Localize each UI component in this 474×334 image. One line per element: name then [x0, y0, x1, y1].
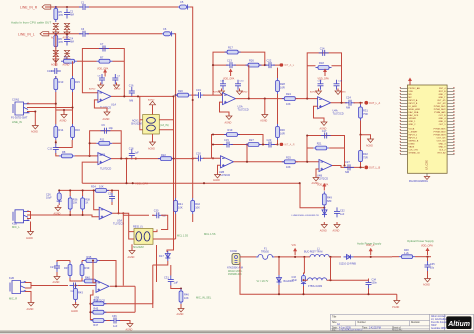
node — [123, 95, 125, 97]
wire — [56, 92, 73, 121]
wire — [31, 285, 68, 287]
svg-text:RES1 (!): RES1 (!) — [133, 225, 143, 228]
svg-text:C9: C9 — [101, 123, 105, 127]
diode pair D3 — [53, 50, 59, 56]
IC U6 DIX4192 body — [408, 85, 448, 173]
power VDD_OPA (U2) — [223, 69, 235, 81]
inductor L2 — [308, 278, 327, 288]
svg-text:PAL/DIX4192IPAG: PAL/DIX4192IPAG — [409, 180, 428, 183]
resistor R35 — [84, 255, 100, 263]
resistor R39 — [80, 262, 90, 278]
wire — [70, 190, 82, 215]
connector MIC2 jack — [9, 276, 27, 301]
svg-text:TL072CD: TL072CD — [333, 112, 344, 116]
svg-text:GND_7: GND_7 — [439, 94, 447, 96]
op-amp U1A — [98, 90, 116, 109]
resistor R41 (line bus load) — [174, 198, 184, 214]
svg-text:DAC_SCK: DAC_SCK — [409, 114, 419, 117]
svg-text:GND_9: GND_9 — [439, 147, 447, 149]
wire — [192, 158, 194, 222]
ground AGND (C27) — [53, 274, 61, 284]
wire — [93, 261, 96, 283]
ground AGND (U2A) — [225, 114, 233, 125]
svg-text:75R: 75R — [363, 112, 368, 116]
node — [89, 311, 91, 313]
wire — [360, 135, 362, 168]
svg-text:Australia 2086: Australia 2086 — [431, 327, 446, 330]
svg-text:PYNM_4A/1: PYNM_4A/1 — [434, 111, 446, 114]
wire — [72, 61, 74, 76]
svg-text:GND_T: GND_T — [438, 97, 446, 99]
node — [55, 60, 57, 62]
svg-text:Title: Title — [332, 316, 337, 319]
power VDD_OPTO — [421, 245, 433, 256]
wire U2A feedback loop — [213, 52, 265, 95]
node — [248, 98, 250, 100]
resistor R31 — [359, 105, 369, 121]
resistor R7 — [97, 56, 113, 64]
capacitor C19 (series) — [195, 88, 205, 98]
ground AGND (U4B) — [312, 175, 320, 185]
svg-text:R35: R35 — [87, 255, 92, 259]
ground AGND (C10) — [237, 89, 248, 95]
svg-text:10u: 10u — [430, 266, 435, 269]
node — [370, 256, 372, 258]
capacitor C3b (series) — [79, 28, 89, 37]
node — [262, 143, 264, 145]
svg-text:Altium Limited: Altium Limited — [431, 315, 446, 318]
wire — [128, 95, 174, 97]
svg-text:VDD_OPA: VDD_OPA — [135, 181, 148, 185]
svg-text:TL072CD: TL072CD — [113, 222, 124, 226]
wire — [78, 285, 96, 287]
svg-text:R47: R47 — [93, 323, 98, 327]
svg-text:47K: 47K — [59, 13, 64, 17]
svg-text:CLK_2: CLK_2 — [439, 150, 446, 152]
wire U4B feedback loop — [307, 136, 345, 166]
resistor R38 — [81, 196, 91, 212]
IC U6 pin numbers right — [453, 87, 455, 156]
port LINE_IN_R — [20, 5, 51, 10]
node — [66, 6, 68, 8]
wire — [304, 279, 367, 281]
svg-text:R22: R22 — [161, 153, 166, 157]
svg-text:Time:: Time: — [362, 327, 368, 329]
node — [172, 95, 174, 97]
capacitor C20 (series) — [194, 151, 204, 161]
svg-text:U1A: U1A — [111, 103, 116, 107]
svg-text:INPUT_B: INPUT_B — [409, 103, 418, 105]
wire plus input — [314, 106, 325, 119]
svg-text:C15: C15 — [224, 138, 229, 142]
svg-text:VDD: VDD — [409, 91, 414, 93]
op-amp U4B — [317, 160, 332, 181]
node — [55, 141, 57, 143]
resistor R47 — [322, 191, 332, 207]
port OUTPUT_R — [364, 166, 380, 170]
svg-text:AGND: AGND — [63, 64, 70, 67]
port OUTPUT_L — [364, 101, 380, 105]
wire — [25, 292, 31, 301]
wire — [58, 190, 60, 205]
resistor R42 (line bus load) — [191, 198, 201, 214]
wire — [264, 99, 266, 112]
capacitor C17 — [321, 129, 331, 139]
resistor R11 — [96, 138, 112, 146]
svg-text:R21: R21 — [317, 142, 322, 146]
node — [117, 212, 119, 214]
svg-text:Audio Power Supply: Audio Power Supply — [357, 241, 382, 245]
resistor R44 — [90, 298, 106, 306]
resistor R16 — [71, 124, 81, 140]
svg-text:C20: C20 — [196, 151, 201, 155]
node — [69, 214, 71, 216]
diode pair D1 — [53, 23, 59, 29]
svg-text:AGND: AGND — [27, 308, 34, 311]
wire — [277, 68, 279, 124]
wire — [90, 142, 122, 144]
resistor R18 — [316, 61, 332, 69]
svg-text:D17: D17 — [159, 254, 164, 258]
wire — [70, 261, 82, 282]
wire — [27, 103, 56, 105]
diode pair D2 — [64, 23, 70, 29]
svg-text:680: 680 — [327, 199, 332, 203]
resistor R46 — [179, 289, 189, 305]
svg-text:CON2: CON2 — [230, 250, 238, 253]
svg-text:SN-202M: SN-202M — [133, 246, 144, 249]
svg-text:C27: C27 — [50, 265, 55, 269]
svg-text:LINE_IN_L: LINE_IN_L — [18, 32, 35, 36]
capacitor C11b (decoupling) — [334, 80, 343, 90]
node — [55, 33, 57, 35]
svg-text:OUT_L_B: OUT_L_B — [369, 167, 380, 170]
svg-text:PYNM_GE/1: PYNM_GE/1 — [434, 129, 447, 131]
power VDD_OPA (U4) — [318, 69, 330, 81]
node — [125, 182, 127, 184]
wire — [77, 60, 82, 62]
svg-text:OUT_B: OUT_B — [439, 115, 447, 117]
wire — [152, 215, 168, 229]
capacitor C4 — [64, 36, 74, 46]
node — [120, 158, 122, 160]
wire row — [212, 144, 278, 146]
wire U4A feedback loop — [307, 53, 341, 103]
node — [246, 161, 248, 163]
node — [340, 102, 342, 104]
svg-text:LUMEX/SML-LX0603IW-TR: LUMEX/SML-LX0603IW-TR — [292, 215, 320, 217]
resistor R8 — [59, 150, 75, 158]
node — [82, 189, 84, 191]
ground AGND (D18) — [320, 222, 328, 233]
node — [175, 94, 177, 96]
wire — [129, 158, 161, 160]
wire — [361, 103, 371, 137]
ground AGND (R43) — [71, 302, 79, 313]
resistor R36 — [68, 196, 78, 212]
ground AGND (U4A) — [320, 120, 328, 131]
svg-text:R30: R30 — [280, 128, 285, 132]
wire minus drop — [94, 190, 100, 209]
wire — [175, 96, 177, 239]
svg-text:R37: R37 — [64, 266, 69, 270]
wire — [27, 212, 31, 219]
svg-text:AGND: AGND — [103, 118, 110, 121]
Altium logo — [446, 316, 471, 329]
node — [264, 98, 266, 100]
node — [212, 143, 214, 145]
svg-text:C10: C10 — [47, 69, 52, 73]
svg-text:VDD_OPA: VDD_OPA — [223, 77, 235, 80]
svg-text:NSW: NSW — [431, 325, 437, 327]
capacitor C28 — [108, 193, 115, 203]
svg-text:TR5/50: TR5/50 — [261, 251, 270, 254]
svg-text:AGND: AGND — [53, 281, 60, 284]
node — [306, 161, 308, 163]
wire — [354, 256, 393, 258]
svg-text:3:42:55 PM: 3:42:55 PM — [369, 327, 381, 329]
svg-text:MCL 1.5S: MCL 1.5S — [177, 235, 188, 238]
wire — [27, 112, 35, 124]
svg-text:OUT_G/1: OUT_G/1 — [437, 138, 447, 140]
node — [306, 98, 308, 100]
ground AGND (opto2) — [128, 248, 136, 259]
power VDD_OPA (LED block) — [317, 183, 329, 191]
IC U6 left pins — [400, 88, 408, 154]
ground AGND (mic2) — [27, 300, 35, 311]
svg-text:C31: C31 — [164, 276, 169, 280]
svg-text:R14: R14 — [59, 128, 64, 132]
capacitor C9b (decoupling) — [318, 80, 324, 90]
svg-text:10K: 10K — [184, 296, 189, 300]
node — [303, 256, 305, 258]
ground AGND (fb) — [126, 321, 134, 332]
wire — [43, 33, 162, 35]
capacitor C27 — [50, 262, 60, 272]
svg-text:TL072CD: TL072CD — [238, 108, 249, 112]
svg-text:OUT_4/1: OUT_4/1 — [437, 100, 446, 102]
svg-text:PYNM_DE/1: PYNM_DE/1 — [434, 106, 447, 108]
resistor R37 — [64, 262, 72, 278]
wire out row — [213, 64, 280, 66]
capacitor C34 — [366, 279, 378, 289]
svg-text:AGND: AGND — [333, 230, 340, 233]
resistor R9 — [61, 56, 77, 64]
ground AGND — [51, 30, 59, 40]
ground AGND (U1A) — [103, 110, 111, 122]
svg-text:C13: C13 — [227, 59, 232, 63]
svg-text:1uF: 1uF — [135, 152, 140, 155]
ground AGND — [63, 30, 71, 40]
svg-text:16R: 16R — [280, 131, 285, 135]
svg-text:DGND: DGND — [409, 144, 416, 146]
svg-text:L_START: L_START — [409, 131, 419, 134]
resistor R28 — [276, 78, 286, 94]
svg-text:10K: 10K — [286, 165, 291, 169]
node — [212, 64, 214, 66]
capacitor C15 — [223, 138, 233, 148]
node — [203, 182, 205, 184]
svg-text:VDD_OPA: VDD_OPA — [421, 245, 433, 248]
node — [276, 143, 278, 145]
svg-text:AGND: AGND — [177, 313, 184, 316]
fuse F1 — [256, 248, 274, 260]
ground AGND (out) — [260, 112, 268, 123]
capacitor C30 (series) — [153, 209, 166, 218]
svg-text:R39: R39 — [85, 266, 90, 270]
svg-text:WT_A_R: WT_A_R — [284, 144, 294, 147]
svg-text:R45: R45 — [93, 307, 98, 311]
node — [74, 284, 76, 286]
wire — [110, 285, 135, 287]
svg-text:MC: MC — [409, 97, 413, 99]
sheet bottom edge — [0, 330, 474, 332]
capacitor C24 (series) — [345, 95, 355, 109]
wire — [180, 304, 182, 306]
diode D18 — [292, 207, 328, 217]
svg-text:CLK_OTO: CLK_OTO — [409, 150, 419, 152]
ground AGND (U2B) — [213, 172, 221, 182]
op-amp U1B — [98, 152, 111, 170]
wire — [203, 157, 221, 159]
svg-text:Frenchs Forest: Frenchs Forest — [431, 321, 447, 324]
svg-text:AGND: AGND — [128, 256, 135, 259]
svg-text:INPUT_A: INPUT_A — [409, 99, 418, 102]
node — [89, 142, 91, 144]
capacitor C2 — [64, 9, 74, 19]
ground AGND (opto1 top, inverted) — [148, 98, 156, 105]
wire — [30, 222, 32, 230]
ground PGND — [392, 298, 400, 309]
svg-text:AGND: AGND — [241, 91, 248, 94]
svg-text:Date:: Date: — [332, 326, 338, 329]
capacitor C16 (series) — [129, 85, 135, 103]
wire — [55, 34, 57, 61]
svg-text:100n: 100n — [372, 282, 378, 285]
svg-text:C14: C14 — [320, 46, 325, 50]
wire — [392, 256, 399, 258]
svg-text:R8: R8 — [62, 150, 66, 154]
wire — [153, 261, 168, 265]
wire — [190, 7, 193, 100]
svg-text:FT50U-100M: FT50U-100M — [308, 285, 322, 288]
op-amp U3B — [94, 280, 109, 302]
ground AGND (C8) — [89, 83, 104, 91]
IC U6 pin numbers left — [399, 87, 401, 156]
svg-text:AGND: AGND — [148, 98, 155, 101]
svg-text:1uF: 1uF — [340, 213, 345, 216]
svg-text:MCL 1.5S: MCL 1.5S — [204, 232, 216, 236]
wire (line L bus down) — [167, 96, 174, 252]
svg-text:PYNM_GE/2: PYNM_GE/2 — [434, 132, 447, 134]
svg-text:AGND: AGND — [213, 91, 220, 94]
wire (to opto2 left) — [112, 213, 134, 239]
wire (mux join) — [152, 290, 154, 304]
svg-text:BUC-R03T-TR-M: BUC-R03T-TR-M — [304, 251, 322, 254]
ground DGND (IC) — [409, 177, 430, 183]
svg-text:MIC_IN_SEL: MIC_IN_SEL — [196, 296, 212, 300]
ground AGND (C11b) — [335, 89, 346, 95]
resistor R21 — [313, 142, 329, 150]
svg-text:KLB: KLB — [9, 276, 14, 280]
wire out vertical — [248, 65, 250, 99]
wire — [307, 147, 345, 149]
wire (jack signal) — [31, 215, 100, 217]
svg-text:AGND: AGND — [340, 91, 347, 94]
svg-text:AGND: AGND — [423, 284, 430, 287]
vertical wire (mux a) — [152, 265, 154, 308]
wire U3A feedback row — [59, 190, 118, 213]
wire (fb rows) — [90, 304, 152, 321]
svg-text:RST_B: RST_B — [439, 91, 446, 93]
capacitor C11 (series) — [48, 144, 59, 154]
svg-text:R31: R31 — [363, 109, 368, 113]
resistor R17 — [225, 46, 241, 54]
node — [69, 189, 71, 191]
svg-text:NM: NM — [346, 105, 350, 109]
wire (drop to rail) — [126, 159, 128, 184]
svg-text:Audio In from CPU cable OUT: Audio In from CPU cable OUT — [11, 21, 51, 25]
capacitor C9 — [100, 123, 113, 134]
wire — [57, 261, 70, 275]
svg-text:C36: C36 — [112, 315, 117, 318]
node — [63, 109, 65, 111]
wire plus input — [316, 169, 319, 175]
ground AGND (opto1) — [148, 140, 156, 151]
svg-text:Sheet of: Sheet of — [392, 326, 401, 329]
wire VDD_OPA rail — [82, 183, 324, 208]
power VDD_A — [366, 244, 375, 255]
svg-text:OUT_L_A: OUT_L_A — [369, 102, 380, 105]
svg-text:AGND: AGND — [213, 179, 220, 182]
wire — [176, 94, 177, 96]
svg-text:NM: NM — [345, 170, 349, 174]
title block — [331, 314, 474, 331]
svg-text:TL072CD: TL072CD — [100, 167, 111, 171]
wire — [27, 107, 73, 109]
wire U1A feedback box — [82, 49, 124, 97]
opto relay RES1 — [131, 115, 169, 135]
wire (opto1 left bus) — [140, 96, 143, 129]
svg-text:VBUS: VBUS — [409, 147, 415, 149]
node — [359, 166, 361, 168]
wire — [111, 190, 113, 205]
wire — [75, 286, 77, 304]
svg-text:1K: 1K — [85, 202, 88, 205]
svg-text:R20: R20 — [178, 89, 183, 93]
capacitor C10 (decoupling) — [235, 80, 244, 90]
svg-text:R19: R19 — [228, 128, 233, 132]
wire plus input — [218, 165, 221, 172]
op-amp U2A — [223, 93, 249, 112]
svg-text:R49: R49 — [327, 195, 332, 199]
svg-text:R42: R42 — [195, 202, 200, 206]
svg-text:WT_A_L: WT_A_L — [284, 64, 294, 67]
svg-text:10K: 10K — [195, 205, 200, 209]
inductor L1 — [304, 248, 329, 257]
svg-text:R40: R40 — [85, 275, 90, 279]
wire — [82, 60, 124, 62]
resistor R24 (into U4A) — [282, 92, 298, 106]
wire — [396, 294, 398, 298]
IC U6 left pin names — [409, 87, 421, 155]
capacitor C8 (decoupling) — [98, 74, 106, 84]
ground AGND (divider) — [60, 112, 68, 123]
svg-text:R17: R17 — [228, 46, 233, 50]
node — [302, 279, 304, 281]
wire — [82, 61, 98, 93]
wire — [56, 153, 59, 156]
